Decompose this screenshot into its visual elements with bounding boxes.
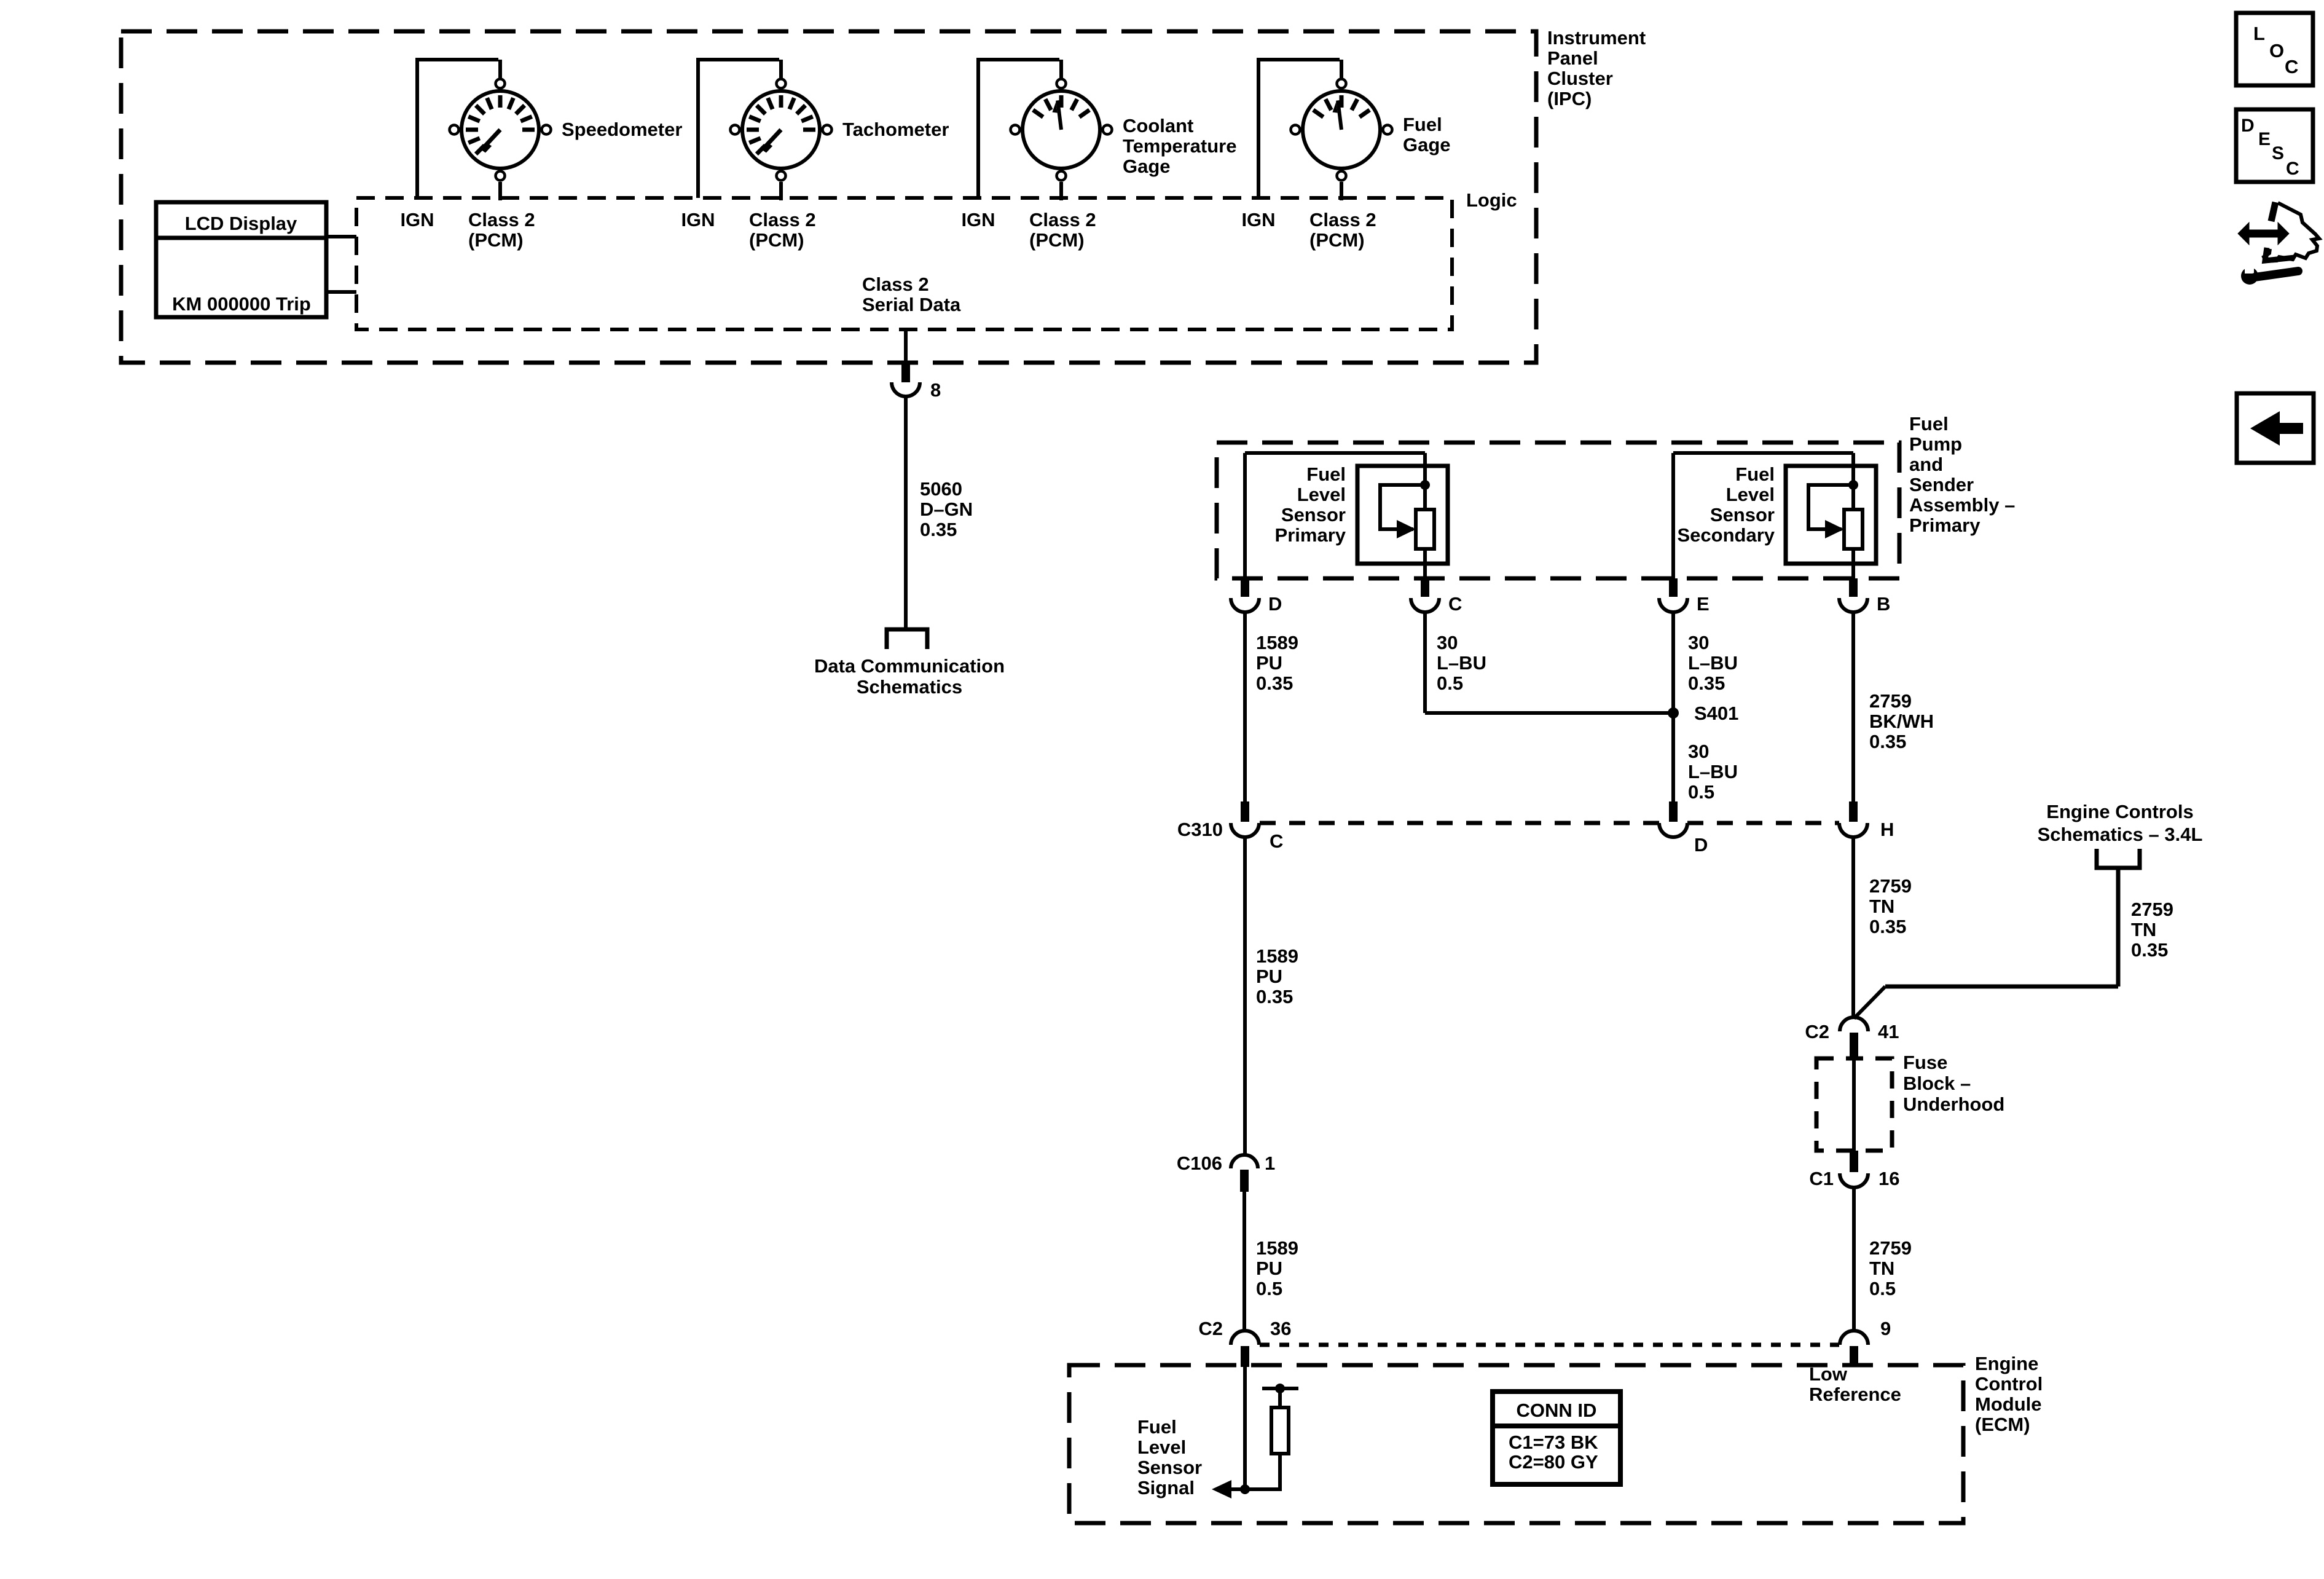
svg-text:0.35: 0.35 [1256, 986, 1293, 1007]
svg-text:0.35: 0.35 [1256, 672, 1293, 694]
svg-text:Gage: Gage [1403, 134, 1451, 156]
svg-text:Sensor: Sensor [1710, 504, 1775, 526]
svg-text:0.35: 0.35 [1869, 916, 1906, 937]
svg-text:C1=73 BK: C1=73 BK [1509, 1431, 1598, 1453]
svg-text:Fuel: Fuel [1403, 114, 1442, 135]
svg-text:Class 2: Class 2 [1309, 209, 1376, 230]
svg-text:30: 30 [1437, 632, 1458, 653]
svg-text:(PCM): (PCM) [468, 229, 524, 251]
svg-text:(ECM): (ECM) [1975, 1414, 2030, 1435]
svg-text:C: C [1448, 593, 1462, 615]
svg-text:IGN: IGN [681, 209, 715, 230]
svg-text:Fuel: Fuel [1137, 1416, 1177, 1438]
svg-text:1589: 1589 [1256, 1237, 1298, 1259]
svg-text:IGN: IGN [400, 209, 434, 230]
svg-text:0.35: 0.35 [1869, 731, 1906, 752]
svg-text:S: S [2272, 143, 2284, 163]
svg-text:0.5: 0.5 [1437, 672, 1463, 694]
svg-text:0.35: 0.35 [920, 519, 957, 540]
svg-text:D: D [1694, 834, 1708, 856]
svg-text:PU: PU [1256, 652, 1282, 674]
svg-text:(PCM): (PCM) [749, 229, 804, 251]
svg-text:TN: TN [2131, 919, 2156, 940]
svg-text:B: B [1877, 593, 1890, 615]
svg-text:Sender: Sender [1909, 474, 1974, 495]
svg-text:IGN: IGN [1241, 209, 1275, 230]
svg-text:Fuel: Fuel [1306, 463, 1346, 485]
svg-text:30: 30 [1688, 632, 1709, 653]
svg-text:2759: 2759 [1869, 1237, 1912, 1259]
svg-text:1: 1 [1265, 1152, 1275, 1174]
svg-text:L–BU: L–BU [1688, 652, 1738, 674]
svg-text:Logic: Logic [1466, 189, 1517, 211]
svg-text:C: C [2286, 159, 2299, 179]
svg-text:2759: 2759 [1869, 875, 1912, 897]
svg-text:Sensor: Sensor [1281, 504, 1346, 526]
svg-text:PU: PU [1256, 966, 1282, 987]
svg-text:Pump: Pump [1909, 433, 1962, 455]
svg-text:36: 36 [1270, 1318, 1291, 1339]
svg-text:5060: 5060 [920, 478, 962, 500]
svg-text:Fuel: Fuel [1909, 413, 1949, 435]
svg-text:1589: 1589 [1256, 945, 1298, 967]
svg-text:C: C [2285, 56, 2298, 77]
svg-text:Schematics – 3.4L: Schematics – 3.4L [2038, 824, 2203, 845]
svg-text:Level: Level [1726, 484, 1775, 505]
svg-text:Data Communication: Data Communication [814, 655, 1005, 677]
svg-text:Panel: Panel [1547, 47, 1598, 69]
svg-text:KM 000000 Trip: KM 000000 Trip [172, 293, 311, 315]
svg-text:Low: Low [1809, 1363, 1848, 1385]
svg-text:C310: C310 [1177, 819, 1223, 840]
svg-text:H: H [1880, 819, 1894, 840]
svg-text:(PCM): (PCM) [1309, 229, 1365, 251]
svg-text:2759: 2759 [1869, 690, 1912, 712]
svg-text:L–BU: L–BU [1688, 761, 1738, 782]
svg-text:C106: C106 [1177, 1152, 1222, 1174]
svg-text:and: and [1909, 454, 1943, 475]
svg-text:Temperature: Temperature [1123, 135, 1237, 157]
svg-text:Block –: Block – [1903, 1073, 1971, 1094]
svg-text:C2: C2 [1198, 1318, 1223, 1339]
svg-text:PU: PU [1256, 1258, 1282, 1279]
svg-text:L–BU: L–BU [1437, 652, 1486, 674]
svg-text:Serial Data: Serial Data [862, 294, 961, 315]
svg-text:Sensor: Sensor [1137, 1457, 1202, 1478]
svg-text:Class 2: Class 2 [862, 274, 929, 295]
svg-text:LCD Display: LCD Display [185, 213, 297, 234]
svg-text:0.5: 0.5 [1256, 1278, 1282, 1299]
svg-text:41: 41 [1878, 1021, 1899, 1042]
svg-text:Assembly –: Assembly – [1909, 494, 2015, 516]
svg-text:9: 9 [1880, 1318, 1891, 1339]
svg-text:Reference: Reference [1809, 1384, 1901, 1405]
svg-text:C1: C1 [1809, 1168, 1834, 1189]
svg-text:Cluster: Cluster [1547, 68, 1613, 89]
svg-text:0.35: 0.35 [1688, 672, 1725, 694]
svg-text:2759: 2759 [2131, 899, 2173, 920]
svg-text:C2: C2 [1805, 1021, 1829, 1042]
svg-text:D: D [2241, 116, 2255, 136]
svg-text:E: E [2258, 129, 2271, 149]
svg-text:Signal: Signal [1137, 1477, 1195, 1498]
svg-text:Tachometer: Tachometer [842, 119, 949, 140]
svg-text:Secondary: Secondary [1677, 524, 1775, 546]
svg-text:Class 2: Class 2 [749, 209, 816, 230]
svg-text:(IPC): (IPC) [1547, 88, 1592, 109]
svg-text:0.5: 0.5 [1869, 1278, 1896, 1299]
svg-text:D: D [1268, 593, 1282, 615]
svg-text:Module: Module [1975, 1393, 2042, 1415]
svg-text:Fuel: Fuel [1735, 463, 1775, 485]
svg-text:Control: Control [1975, 1373, 2043, 1395]
svg-text:Primary: Primary [1275, 524, 1346, 546]
svg-text:Schematics: Schematics [857, 676, 962, 698]
svg-text:Class 2: Class 2 [468, 209, 535, 230]
svg-text:0.35: 0.35 [2131, 939, 2168, 961]
svg-text:8: 8 [930, 379, 941, 401]
svg-text:Primary: Primary [1909, 514, 1981, 536]
svg-text:30: 30 [1688, 741, 1709, 762]
svg-text:Level: Level [1137, 1436, 1186, 1458]
svg-text:TN: TN [1869, 1258, 1894, 1279]
svg-text:(PCM): (PCM) [1029, 229, 1085, 251]
svg-text:1589: 1589 [1256, 632, 1298, 653]
svg-text:CONN ID: CONN ID [1517, 1400, 1597, 1421]
svg-text:L: L [2253, 23, 2265, 44]
svg-text:C: C [1270, 830, 1283, 852]
svg-text:Gage: Gage [1123, 156, 1171, 177]
svg-text:O: O [2269, 40, 2284, 61]
svg-text:Engine: Engine [1975, 1353, 2038, 1374]
svg-text:C2=80 GY: C2=80 GY [1509, 1451, 1598, 1473]
svg-text:Speedometer: Speedometer [562, 119, 682, 140]
svg-text:Underhood: Underhood [1903, 1093, 2004, 1115]
svg-text:TN: TN [1869, 896, 1894, 917]
svg-text:S401: S401 [1694, 703, 1738, 724]
svg-text:BK/WH: BK/WH [1869, 711, 1934, 732]
svg-text:Fuse: Fuse [1903, 1052, 1947, 1073]
svg-text:Level: Level [1297, 484, 1346, 505]
svg-text:E: E [1697, 593, 1710, 615]
svg-text:Class 2: Class 2 [1029, 209, 1096, 230]
svg-text:Engine Controls: Engine Controls [2046, 801, 2193, 822]
svg-text:0.5: 0.5 [1688, 781, 1714, 803]
svg-text:Coolant: Coolant [1123, 115, 1193, 136]
svg-text:16: 16 [1878, 1168, 1899, 1189]
svg-text:IGN: IGN [961, 209, 995, 230]
svg-text:D–GN: D–GN [920, 498, 973, 520]
svg-text:Instrument: Instrument [1547, 27, 1646, 49]
